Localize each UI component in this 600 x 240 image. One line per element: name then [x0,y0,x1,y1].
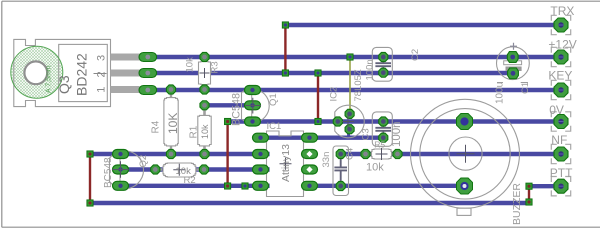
pad KEY [554,83,568,97]
IC1 origin cross [280,158,292,170]
IC2 outline [335,105,364,138]
pad PTT bracket [551,177,570,196]
Q1 pad 1 [245,86,261,95]
wire jumper J1 [89,154,91,203]
R2 pad right [199,165,208,174]
via (285,25) [282,22,288,28]
Q3 mounting hole circle outline [11,46,63,98]
wire jumper J2 [226,122,228,187]
svg-text:78L05Z: 78L05Z [353,69,364,101]
via (227.6,186) [225,183,231,189]
svg-text:Attiny13: Attiny13 [280,144,292,182]
wire row H right NF net [341,152,561,156]
pad 0V [554,115,568,129]
Q3 pad 1 [139,53,157,62]
Q3 pad 3 [139,86,157,95]
R1 body [198,115,211,145]
svg-text:IC1: IC1 [267,121,282,132]
pad TRX bracket [551,15,570,34]
Q2 origin cross [112,161,128,177]
via (529,186.2) [526,183,532,189]
C3 outline [372,112,392,146]
R5 origin cross [376,148,388,160]
IC1 pad 6 [253,165,269,174]
wire row J left [120,184,270,188]
R4 pad top [166,85,175,94]
R1 pad bottom [200,149,209,158]
svg-text:BC548: BC548 [103,157,114,188]
svg-text:TRX: TRX [550,4,574,18]
IC1 body outline [267,131,304,197]
svg-text:10k: 10k [366,162,384,174]
svg-text:C3: C3 [361,128,372,140]
svg-text:10K: 10K [166,113,180,134]
Q1 pin line [251,89,253,122]
C4 outline [333,146,349,196]
svg-text:IC2: IC2 [329,87,340,102]
svg-text:10k: 10k [200,124,210,139]
via (318,73) [315,70,321,76]
svg-text:R1: R1 [189,125,200,138]
pad NF bracket [551,144,570,163]
C2 plates [375,60,391,71]
buzzer center cross [457,145,475,163]
IC1 pad 7 [253,150,269,159]
R5 body [372,149,392,159]
C3 pad bottom [379,133,388,142]
C1 bottom ticks [497,82,528,84]
svg-text:BC548: BC548 [231,93,243,126]
Q2 pin line [119,153,121,187]
pad 0V bracket [551,112,570,131]
IC1 pad 4 [302,181,318,190]
via (285,73) [282,70,288,76]
IC2 origin cross [342,116,354,128]
wire row E [205,103,254,107]
wire row H left [90,152,270,156]
wire row K bottom [90,201,529,205]
svg-text:R2: R2 [184,175,196,186]
Q2 pad 2 [113,165,129,174]
IC2 pad 1 [345,109,354,118]
wire row I [120,167,270,171]
svg-text:KEY: KEY [548,69,572,83]
IC1 pad 1 [302,133,318,142]
pad KEY bracket [551,80,570,99]
via (90,203) [87,200,93,206]
svg-text:Q3: Q3 [56,75,72,94]
wire jumper J5 [528,186,530,202]
wire row A TRX net [285,23,561,27]
wire row J PTT stub [529,184,561,188]
Q1 outline [242,89,270,123]
C1 minus stripe bar [506,67,522,72]
buzzer inner ring [420,109,510,199]
R2 pad left [151,165,160,174]
svg-text:BUZZER: BUZZER [511,183,523,225]
R2 origin cross [173,164,185,176]
wire row D KEY net [147,88,561,92]
R4 lead stubs [170,93,172,151]
C2 pad top [379,52,388,61]
C3 plates [375,124,391,135]
svg-text:PTT: PTT [550,166,573,180]
C4 pad bottom [336,181,345,190]
C2 outline [372,47,392,81]
buzzer center circle [449,137,482,170]
svg-text:+12V: +12V [548,37,576,51]
Q2 pad 3 [113,181,129,190]
pad +12V [554,50,568,64]
Q1 pad 3 [245,117,261,126]
svg-text:NF: NF [551,133,567,147]
C1 plate open rect [504,61,522,65]
Q3 pin 3 lead [111,86,140,93]
R1 pad top [200,101,209,110]
svg-text:1: 1 [96,87,108,93]
buzzer bottom tab [457,208,471,215]
svg-text:3: 3 [96,55,108,61]
C1 plus sign [510,43,517,50]
svg-text:10k: 10k [185,57,196,73]
IC1 pad 8 [253,133,269,142]
C4 plates [334,158,347,182]
C1 outline circle [497,47,530,80]
Q1 pad 2 [245,101,261,110]
R5 lead stubs [369,153,395,155]
R3 pad top [200,52,209,61]
pad PTT [554,179,568,193]
buzzer pad + [457,114,473,130]
via (318,121.5) [315,118,321,124]
R3 origin cross [200,68,210,78]
pad NF [554,147,568,161]
R4 pad bottom [166,149,175,158]
IC1 pad 3 [302,165,318,174]
buzzer pad - [457,178,473,194]
svg-text:Q1: Q1 [268,93,279,106]
via (529,202) [526,199,532,205]
svg-text:R3: R3 [210,61,221,73]
wire row F 0V net [228,119,561,123]
R1 lead stubs [203,109,206,151]
svg-text:A 7,5mm: A 7,5mm [46,65,53,93]
svg-text:R5: R5 [374,139,385,149]
Q3 pin2 tick line [94,73,107,75]
svg-text:Q2: Q2 [138,155,149,168]
svg-text:R4: R4 [151,120,162,133]
pad +12V bracket [551,47,570,66]
wire jumper J4 [317,73,319,122]
C1 pad - [508,68,519,79]
R2 lead stubs [159,168,201,170]
IC2 pad 2 [333,117,342,126]
svg-text:C4: C4 [345,148,356,160]
svg-text:100u: 100u [495,82,506,104]
wire row G [253,135,383,139]
Q3 pad 2 [139,69,157,78]
wire jumper J3 [284,25,286,73]
IC1 pad 5 [253,181,269,190]
R2 body [163,163,196,177]
Q3 package outline [59,44,108,101]
Q3 drill hole [24,61,47,84]
svg-text:33n: 33n [321,152,332,168]
Q1 origin cross [245,98,261,114]
R3 pad bottom [200,85,209,94]
svg-text:100n: 100n [364,59,375,80]
R4 body [164,98,178,146]
R5 pad right [393,149,402,158]
svg-text:100n: 100n [391,121,403,147]
svg-text:BD242: BD242 [74,53,90,96]
Q2 pad 1 [113,150,129,159]
IC1 pad 2 [302,150,318,159]
svg-text:C1: C1 [520,82,531,94]
R3 body [199,62,211,85]
buzzer outer circle [411,99,520,208]
C3 pad top [379,117,388,126]
via (90,154) [87,151,93,157]
Q2 outline [110,151,144,189]
via (227.6,121.5) [225,118,231,124]
svg-text:C2: C2 [410,49,421,61]
via (350,57) [347,54,353,60]
wire thin trace to IC2 pin [349,57,351,112]
Q3 pin 1 lead [111,54,140,61]
pad TRX [554,18,568,32]
Q3 pin 2 lead [111,70,140,77]
wire row J middle [302,184,465,188]
wire row C [147,71,512,75]
via (245,186) [242,183,248,189]
C4 pad top [336,149,345,158]
R5 pad left [361,149,370,158]
IC2 pad 3 [345,125,354,134]
C2 pad bottom [379,68,388,77]
wire row B +12V net [147,55,561,59]
svg-text:2: 2 [96,71,108,77]
wire IC2 pin stub [347,129,350,138]
C1 pad + [507,52,518,63]
